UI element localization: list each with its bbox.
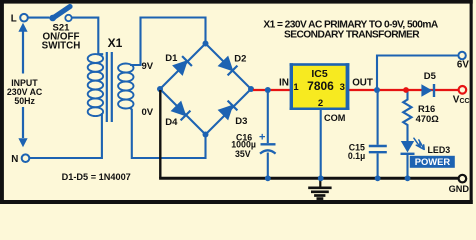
svg-text:LED3: LED3 xyxy=(428,145,451,155)
svg-text:POWER: POWER xyxy=(415,156,451,167)
svg-text:+: + xyxy=(259,132,265,144)
svg-text:7806: 7806 xyxy=(307,79,334,93)
svg-text:2: 2 xyxy=(318,98,323,109)
svg-text:IN: IN xyxy=(279,78,289,89)
svg-text:6V: 6V xyxy=(457,60,469,71)
svg-text:SECONDARY TRANSFORMER: SECONDARY TRANSFORMER xyxy=(284,30,420,41)
svg-text:GND: GND xyxy=(449,184,470,194)
svg-text:D5: D5 xyxy=(424,71,437,82)
svg-text:470Ω: 470Ω xyxy=(416,113,440,124)
svg-text:0V: 0V xyxy=(142,107,154,118)
svg-text:9V: 9V xyxy=(142,61,154,72)
svg-text:1000µ: 1000µ xyxy=(231,139,256,149)
svg-text:3: 3 xyxy=(340,82,345,93)
svg-text:35V: 35V xyxy=(235,149,251,159)
svg-text:N: N xyxy=(11,154,18,165)
svg-text:OUT: OUT xyxy=(352,78,373,89)
svg-text:50Hz: 50Hz xyxy=(14,96,35,106)
svg-text:D4: D4 xyxy=(165,117,178,128)
svg-text:0.1µ: 0.1µ xyxy=(348,151,365,161)
svg-text:1: 1 xyxy=(293,82,299,93)
svg-text:D3: D3 xyxy=(235,116,247,127)
svg-text:X1: X1 xyxy=(108,36,123,50)
svg-text:SWITCH: SWITCH xyxy=(42,40,81,51)
svg-text:D1-D5 = 1N4007: D1-D5 = 1N4007 xyxy=(62,172,131,182)
svg-text:D2: D2 xyxy=(234,54,246,65)
svg-text:D1: D1 xyxy=(165,53,178,64)
svg-text:L: L xyxy=(11,13,17,24)
svg-text:COM: COM xyxy=(324,113,346,123)
